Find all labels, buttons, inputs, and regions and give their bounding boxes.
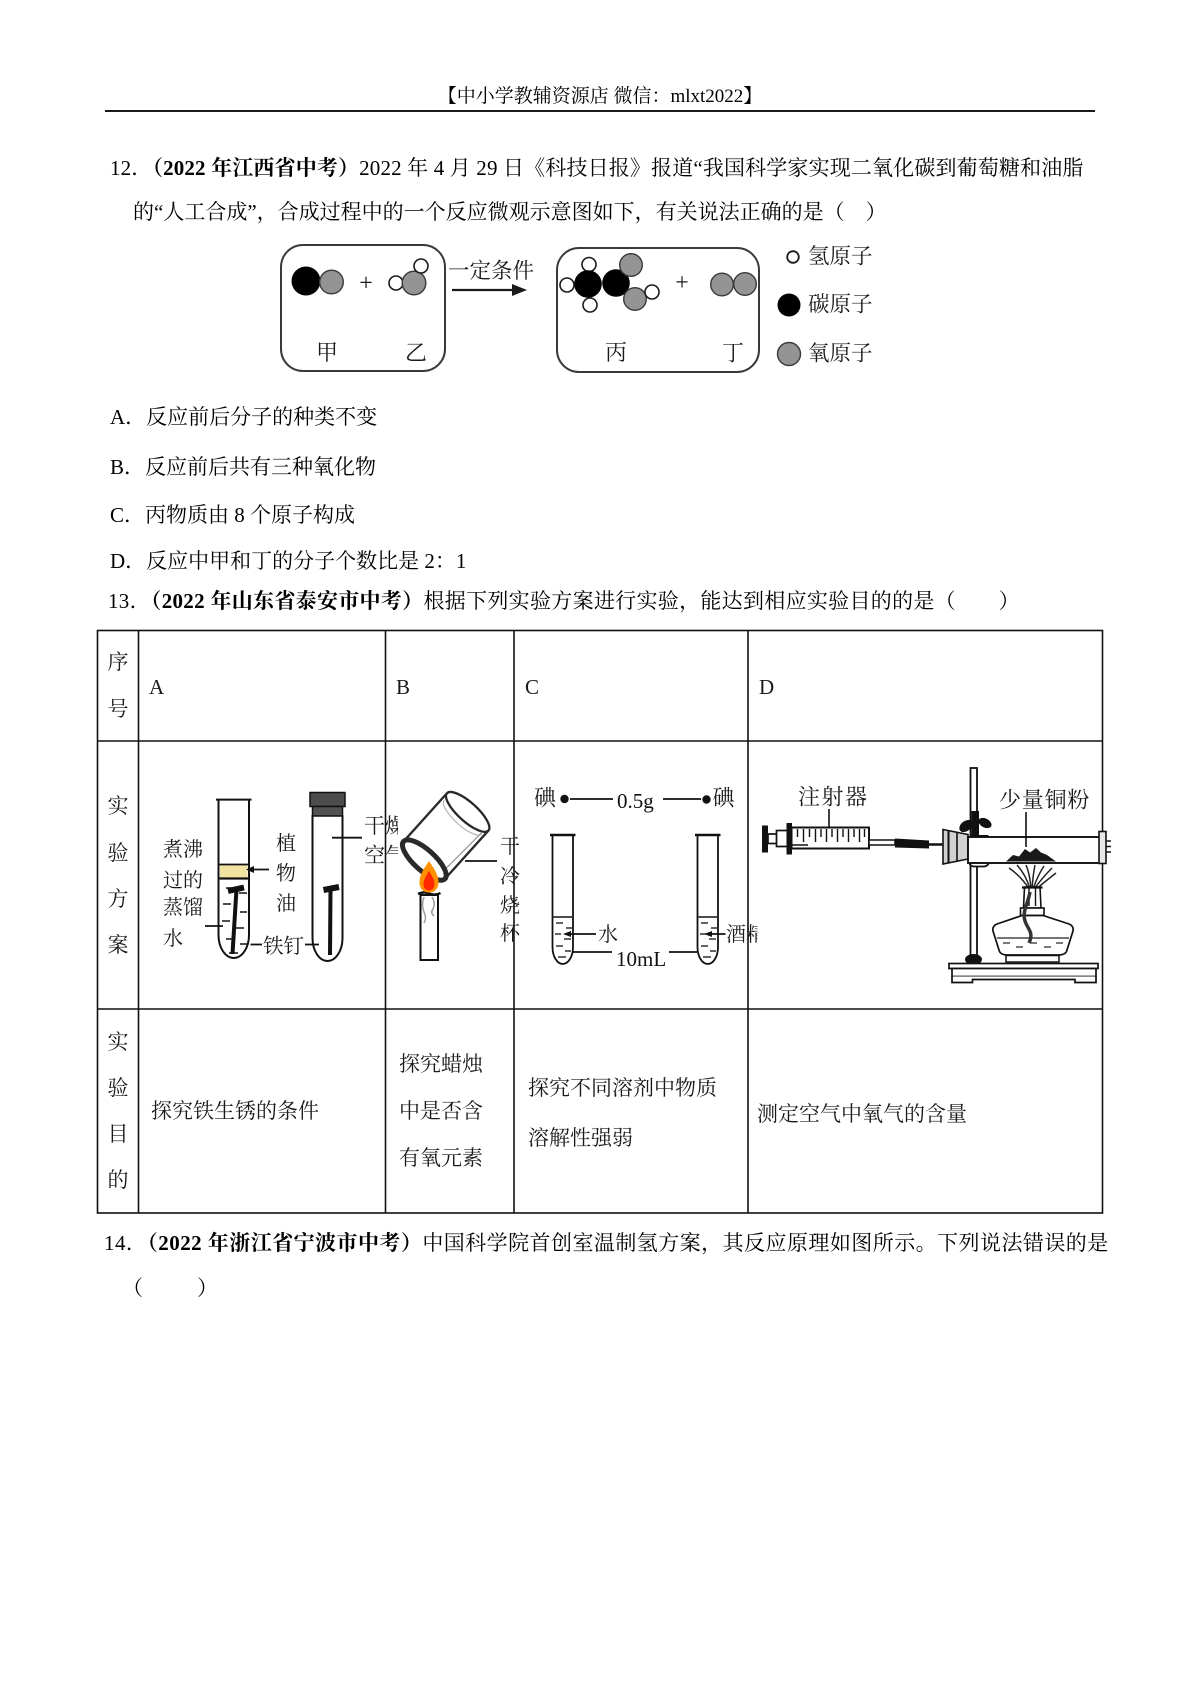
clamp lower jaw [969, 853, 989, 867]
label 干冷烧杯 [500, 835, 521, 945]
test tube alcohol [698, 835, 719, 964]
svg-text:验: 验 [108, 1076, 129, 1100]
svg-text:过的: 过的 [163, 869, 203, 892]
pointer to beaker [465, 860, 497, 862]
CELL A DIAGRAM [163, 793, 406, 962]
svg-text:干: 干 [500, 835, 520, 858]
svg-text:案: 案 [108, 933, 129, 957]
iron nail 2 [324, 887, 340, 890]
reaction arrow [452, 289, 514, 291]
H on O [645, 285, 659, 299]
svg-text:探究铁生锈的条件: 探究铁生锈的条件 [151, 1099, 319, 1123]
melted wax top [418, 892, 441, 894]
CO molecule: carbon [292, 267, 321, 296]
svg-text:酒精: 酒精 [726, 923, 766, 946]
column lines [138, 631, 140, 1214]
pointer to water [205, 925, 223, 927]
wick holder [1024, 887, 1042, 908]
rod base blob [965, 954, 982, 965]
svg-text:探究蜡烛: 探究蜡烛 [399, 1052, 484, 1076]
svg-text:碳原子: 碳原子 [808, 293, 873, 317]
header rule [105, 110, 1095, 112]
tube 1 rim [216, 799, 252, 801]
wick inside [1024, 892, 1031, 943]
svg-text:A: A [149, 675, 165, 699]
copper powder pile [1006, 848, 1056, 862]
CELL C DIAGRAM [534, 786, 766, 972]
svg-text:有氧元素: 有氧元素 [399, 1146, 483, 1170]
svg-text:油: 油 [276, 892, 296, 915]
svg-text:序: 序 [108, 650, 129, 674]
label 煮沸过的蒸馏水 [163, 838, 203, 950]
Q12 molecular diagram [0, 240, 1200, 385]
svg-text:注射器: 注射器 [798, 785, 869, 810]
svg-text:一定条件: 一定条件 [448, 259, 534, 283]
CO molecule: oxygen [320, 270, 344, 294]
svg-text:烧: 烧 [500, 894, 520, 917]
svg-text:+: + [359, 271, 373, 297]
svg-text:甲: 甲 [316, 340, 338, 365]
svg-text:水: 水 [163, 927, 183, 950]
glass tube [968, 837, 1102, 863]
Q14 line 2 [122, 1278, 222, 1299]
svg-text:方: 方 [108, 887, 129, 911]
svg-text:冷: 冷 [500, 865, 520, 888]
lamp base rim [1006, 956, 1059, 963]
H bottom [583, 298, 597, 312]
option A [110, 407, 377, 428]
svg-text:丙: 丙 [605, 340, 627, 365]
syringe plunger handle [762, 826, 768, 853]
test tube 2 body [313, 815, 343, 961]
candle body [421, 895, 439, 960]
needle into stopper [869, 840, 895, 845]
svg-text:碘: 碘 [534, 786, 557, 811]
carbon 1 [574, 270, 602, 298]
left stopper [943, 830, 968, 865]
svg-text:杯: 杯 [500, 922, 521, 945]
right end cap [1099, 832, 1106, 864]
svg-text:测定空气中氧气的含量: 测定空气中氧气的含量 [757, 1102, 967, 1126]
svg-text:的: 的 [108, 1168, 129, 1192]
inverted beaker (tilted) [397, 786, 495, 886]
candle flame inner [424, 871, 435, 891]
Q14 line 1 [104, 1233, 1109, 1254]
svg-text:铁钉: 铁钉 [263, 935, 304, 958]
svg-text:氢原子: 氢原子 [808, 245, 873, 269]
H2O: oxygen [402, 271, 426, 295]
lamp body [993, 916, 1073, 956]
svg-text:乙: 乙 [405, 341, 427, 366]
svg-text:空气: 空气 [364, 844, 406, 868]
H2O: H left [389, 276, 403, 290]
candle flame outer [420, 861, 439, 893]
H left [560, 278, 574, 292]
water dashes [222, 888, 247, 953]
stand rod [971, 768, 978, 964]
CELL B DIAGRAM [397, 786, 521, 960]
option D [110, 551, 466, 572]
header text [0, 87, 1200, 106]
svg-text:C: C [525, 675, 539, 699]
carbon 2 [602, 269, 630, 297]
O bottom [624, 288, 647, 311]
iron nail 1 [228, 888, 244, 892]
label 植物油 [276, 832, 296, 915]
C2H4O2 molecule: H top-left behind [582, 258, 596, 272]
syringe barrel [792, 828, 870, 849]
svg-text:验: 验 [108, 841, 129, 865]
svg-text:蒸馏: 蒸馏 [163, 896, 203, 919]
test tube water [553, 835, 574, 964]
svg-text:碘: 碘 [713, 786, 736, 811]
rubber stopper [310, 793, 345, 807]
legend H [787, 251, 799, 263]
pointer to tube2 [332, 837, 362, 839]
CELL D DIAGRAM [762, 768, 1111, 983]
O2 molecule [711, 273, 734, 296]
svg-text:干燥: 干燥 [364, 814, 406, 838]
reactant box 甲乙 [281, 245, 445, 371]
svg-text:物: 物 [276, 862, 296, 885]
Q13 [108, 591, 1020, 612]
product box 丙丁 [557, 248, 759, 372]
table outer border [98, 631, 1103, 1214]
svg-text:B: B [396, 675, 410, 699]
test tube 1 body [219, 800, 250, 958]
H2O: H top [414, 259, 428, 273]
svg-text:0.5g: 0.5g [617, 789, 654, 813]
legend O [778, 343, 801, 366]
svg-text:目: 目 [108, 1122, 129, 1146]
table [0, 625, 1200, 1217]
vegetable oil layer [220, 865, 248, 878]
svg-text:氧原子: 氧原子 [808, 342, 873, 366]
svg-text:丁: 丁 [722, 341, 744, 366]
pointer to oil [248, 869, 269, 871]
svg-text:水: 水 [598, 923, 618, 946]
svg-text:实: 实 [108, 794, 129, 818]
row lines [98, 740, 1103, 742]
Q12 line 1 [110, 158, 1084, 179]
option C [110, 505, 355, 526]
svg-text:号: 号 [108, 697, 129, 721]
svg-text:+: + [675, 270, 689, 296]
Q12 line 2 [133, 202, 887, 223]
svg-text:D: D [759, 675, 774, 699]
option B [110, 457, 376, 478]
svg-text:10mL: 10mL [616, 947, 666, 971]
svg-text:少量铜粉: 少量铜粉 [999, 788, 1090, 813]
clamp wing nut [957, 811, 993, 845]
O top [620, 254, 643, 277]
stand base plate [949, 964, 1098, 969]
legend C [778, 294, 801, 317]
lamp flame wisps [1009, 865, 1056, 890]
svg-text:植: 植 [276, 832, 296, 855]
svg-text:溶解性强弱: 溶解性强弱 [528, 1126, 633, 1150]
svg-text:实: 实 [108, 1030, 129, 1054]
lamp liquid [997, 937, 1069, 939]
svg-text:探究不同溶剂中物质: 探究不同溶剂中物质 [528, 1076, 717, 1100]
svg-text:中是否含: 中是否含 [399, 1099, 483, 1123]
svg-text:煮沸: 煮沸 [163, 838, 203, 861]
